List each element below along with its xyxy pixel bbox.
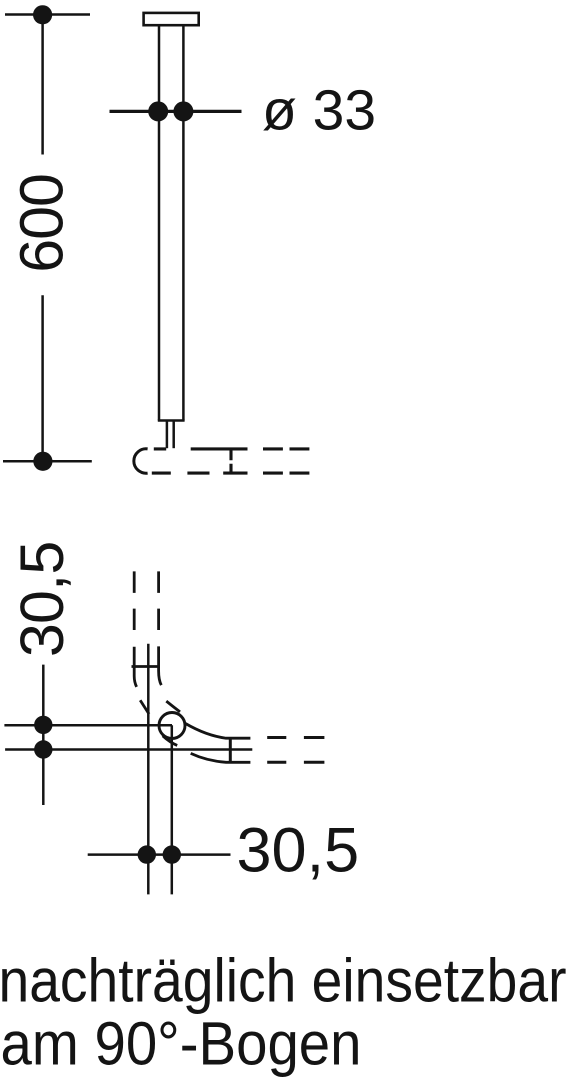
plan view: horizontal rail joint tick: [229, 738, 232, 762]
svg-text:30,5: 30,5: [237, 815, 360, 885]
rail joint tick: [229, 450, 232, 473]
plan view: horizontal rail top edge dashes: [267, 736, 324, 739]
dimension 600: bottom dot: [33, 452, 52, 471]
plan view: vertical rail right edge dashes: [157, 571, 160, 630]
post left edge: [158, 25, 161, 420]
svg-text:am 90°-Bogen: am 90°-Bogen: [1, 1010, 362, 1079]
plan view: vertical rail left edge solid: [134, 647, 136, 687]
rail end cap arc: [134, 449, 148, 473]
dimension 600: top dot: [33, 5, 52, 24]
post top cap: [144, 13, 199, 25]
plan view: outer bend under-circle segment: [163, 736, 178, 746]
post bottom line: [158, 419, 185, 422]
dimension ø33: leader line: [110, 110, 242, 113]
dimension 30,5 left: lower dot: [34, 740, 52, 758]
dimension 30,5 bottom: right dot: [163, 845, 181, 863]
post right edge: [182, 25, 185, 420]
plan view: outer bend curve segment: [140, 700, 149, 714]
dimension 600: bottom extension bar: [3, 460, 92, 463]
dimension 600: top extension bar: [5, 13, 90, 16]
extension line: horizontal rail axis: [5, 748, 252, 751]
plan view: vertical rail left edge dashes: [133, 571, 136, 630]
rail bottom edge segments: [152, 472, 310, 475]
svg-text:nachträglich einsetzbar: nachträglich einsetzbar: [0, 946, 567, 1015]
svg-text:ø 33: ø 33: [262, 79, 376, 143]
dimension 30,5 bottom: leader line: [88, 853, 231, 856]
dimension ø33: left dot: [148, 101, 168, 121]
dimension 600: vertical line lower segment: [41, 295, 44, 461]
svg-text:30,5: 30,5: [8, 542, 76, 658]
plan view: outer bend to horizontal rail bottom edge: [191, 753, 251, 762]
plan view: horizontal rail bottom edge dashes: [267, 761, 324, 764]
dimension 30,5 left: upper dot: [34, 716, 52, 734]
extension line: vertical rail axis: [147, 644, 150, 895]
extension line: post axis vertical: [171, 725, 174, 894]
svg-text:600: 600: [7, 174, 75, 273]
post stem left edge: [166, 421, 169, 449]
plan view: inner bend to horizontal rail top edge: [186, 724, 251, 739]
plan view: rail joint tick: [132, 665, 161, 668]
rail top edge segments: [154, 447, 310, 450]
extension line: post axis horizontal: [4, 724, 172, 727]
plan view: post circle: [159, 713, 185, 739]
post stem right edge: [172, 421, 175, 449]
dimension 30,5 bottom: left dot: [138, 845, 156, 863]
dimension ø33: right dot: [173, 101, 193, 121]
dimension 30,5 left: vertical line: [42, 665, 45, 805]
plan view: inner bend curve segment: [166, 701, 180, 712]
plan view: vertical rail right edge solid: [159, 646, 162, 685]
dimension 600: vertical line upper segment: [41, 15, 44, 155]
